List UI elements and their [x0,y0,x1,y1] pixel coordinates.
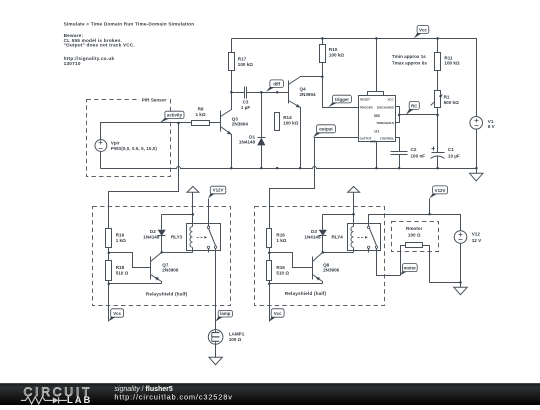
svg-text:LAB: LAB [67,394,92,405]
svg-text:100 Ω: 100 Ω [229,337,242,342]
svg-text:2N3904: 2N3904 [232,122,249,127]
svg-text:1 µF: 1 µF [241,105,250,110]
svg-text:100 nF: 100 nF [411,153,426,158]
svg-text:555: 555 [374,114,380,118]
svg-text:500 kΩ: 500 kΩ [444,100,459,105]
svg-text:1N4148: 1N4148 [143,234,160,239]
svg-text:output: output [319,127,333,132]
svg-text:lamp: lamp [220,311,231,316]
svg-text:1 kΩ: 1 kΩ [276,238,286,243]
svg-text:TRIGGER: TRIGGER [360,106,374,110]
svg-text:R17: R17 [238,56,247,61]
svg-text:2N3906: 2N3906 [162,268,179,273]
svg-text:100 kΩ: 100 kΩ [238,62,253,67]
svg-text:Vcc: Vcc [419,27,427,32]
svg-text:OUTPUT: OUTPUT [360,137,372,141]
svg-text:R19: R19 [116,232,125,237]
svg-text:V12V: V12V [435,188,446,193]
svg-text:2N3904: 2N3904 [300,92,317,97]
svg-text:Vcc: Vcc [274,311,282,316]
svg-text:Tmax approx 6s: Tmax approx 6s [392,61,427,66]
svg-text:VCC: VCC [387,98,394,102]
svg-text:Q3: Q3 [232,117,239,122]
svg-text:V12V: V12V [213,188,224,193]
svg-text:D1: D1 [249,135,255,140]
svg-text:12 V: 12 V [472,238,482,243]
svg-text:Relayshield (half): Relayshield (half) [285,291,327,296]
svg-text:1 kΩ: 1 kΩ [195,112,205,117]
svg-text:R10: R10 [329,47,338,52]
svg-text:Vpir: Vpir [111,141,120,146]
svg-text:130710: 130710 [64,61,81,66]
svg-text:Q4: Q4 [300,87,307,92]
svg-text:C3: C3 [243,99,249,104]
svg-text:Tmin approx 1s: Tmin approx 1s [392,54,426,59]
svg-text:1 kΩ: 1 kΩ [116,238,126,243]
svg-text:RC: RC [411,103,418,108]
svg-text:activity: activity [167,112,183,117]
svg-text:signality / flusher5: signality / flusher5 [114,386,172,393]
svg-text:http://circuitlab.com/c32528v: http://circuitlab.com/c32528v [114,393,232,402]
svg-text:PIR Sensor: PIR Sensor [142,97,167,102]
svg-text:http://signality.co.uk: http://signality.co.uk [64,56,115,61]
svg-text:D3: D3 [311,229,317,234]
svg-text:RLY3: RLY3 [171,234,183,239]
svg-text:R18: R18 [116,265,125,270]
svg-text:RLY4: RLY4 [332,234,344,239]
svg-text:1N4148: 1N4148 [304,234,321,239]
svg-text:diff: diff [273,81,280,86]
svg-text:100 kΩ: 100 kΩ [444,61,459,66]
svg-text:trigger: trigger [335,97,349,102]
svg-text:"Output" does not track VCC.: "Output" does not track VCC. [64,43,135,48]
svg-text:LAMP1: LAMP1 [229,331,245,336]
svg-text:Q8: Q8 [323,262,330,267]
svg-text:2N3906: 2N3906 [323,268,340,273]
svg-text:V12: V12 [472,232,481,237]
svg-text:R14: R14 [283,115,292,120]
svg-text:CONTROL: CONTROL [380,137,395,141]
svg-text:100 Ω: 100 Ω [408,233,421,238]
svg-text:DISCHARGE: DISCHARGE [377,106,394,110]
svg-text:C1: C1 [448,147,454,152]
svg-text:Rmotor: Rmotor [406,226,423,231]
svg-text:Vcc: Vcc [113,311,121,316]
svg-text:100 kΩ: 100 kΩ [329,53,344,58]
svg-text:510 Ω: 510 Ω [116,270,129,275]
svg-text:R9: R9 [198,107,204,112]
svg-text:6 V: 6 V [488,124,496,129]
svg-text:RESET: RESET [360,98,370,102]
svg-text:PWS(0,0, 0.5, 5, 10,0): PWS(0,0, 0.5, 5, 10,0) [111,146,157,151]
svg-text:C2: C2 [411,147,417,152]
svg-text:R16: R16 [276,232,285,237]
svg-text:R1: R1 [444,94,450,99]
svg-text:D2: D2 [150,229,156,234]
svg-text:510 Ω: 510 Ω [276,270,289,275]
svg-text:Q7: Q7 [162,262,169,267]
svg-text:Simulate > Time Domain Run Tim: Simulate > Time Domain Run Time-Domain S… [64,21,195,26]
svg-text:R15: R15 [276,265,285,270]
svg-text:U1: U1 [374,130,379,134]
svg-text:100 kΩ: 100 kΩ [283,121,298,126]
svg-text:V1: V1 [488,119,494,124]
svg-text:10 µF: 10 µF [448,153,460,158]
svg-text:THRESHOLD: THRESHOLD [376,121,394,125]
svg-text:R11: R11 [444,55,453,60]
svg-text:1N4148: 1N4148 [239,140,256,145]
svg-text:motor: motor [404,266,417,271]
svg-text:Relayshield (half): Relayshield (half) [146,291,188,296]
